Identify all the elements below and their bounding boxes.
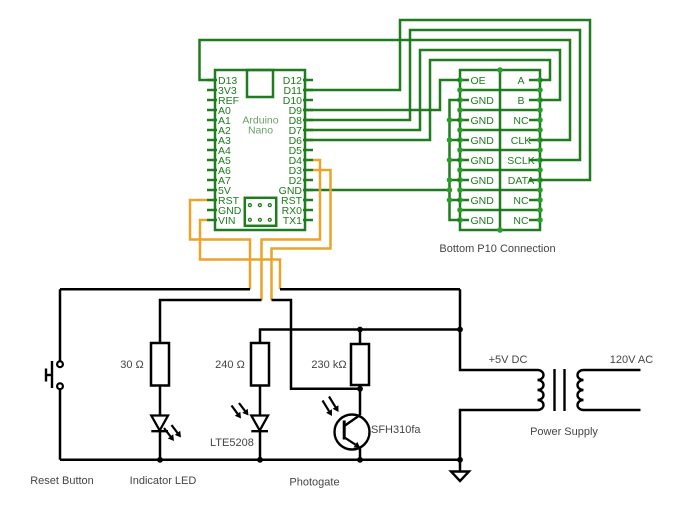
wire indicator drive (D4 net) (160, 300, 262, 343)
pin GND (P10 row 6 left) (460, 175, 494, 187)
pin A1 (Arduino left) (207, 115, 231, 127)
pin GND (P10 row 8 left) (460, 215, 494, 227)
svg-text:B: B (517, 95, 524, 107)
pin GND (P10 row 7 left) (460, 195, 494, 207)
label 30 ohm (120, 359, 144, 371)
junction Q1-rail (357, 457, 363, 463)
pin 5V (Arduino left) (207, 185, 231, 197)
wire top rail left (reset net) (60, 288, 250, 291)
pin TX1 (Arduino right) (283, 215, 313, 227)
svg-text:230 kΩ: 230 kΩ (311, 359, 346, 371)
label Bottom P10 Connection (439, 243, 555, 255)
pin D12 (Arduino right) (283, 75, 313, 87)
junction +5V/supply (457, 327, 463, 333)
junction LED1-rail (157, 457, 163, 463)
label SFH310fa (371, 424, 421, 436)
pin REF (Arduino left) (207, 95, 239, 107)
pin GND (P10 row 3 left) (460, 115, 494, 127)
wire LED2 to rail (259, 431, 262, 460)
connector J1 Bottom P10 (460, 70, 540, 230)
pin RX0 (Arduino right) (282, 205, 313, 217)
wire D13 to CLK (200, 40, 571, 140)
pin D4 (Arduino right) (289, 155, 313, 167)
pin D6 (Arduino right) (289, 135, 313, 147)
wire LED1 to rail (159, 431, 162, 460)
label Power Supply (530, 426, 598, 438)
wire 120V AC bottom lead (584, 409, 641, 412)
wire supply lower lead to ground (460, 410, 538, 460)
GND bus (P10 left side) (447, 100, 460, 220)
svg-text:Indicator LED: Indicator LED (130, 475, 197, 487)
label Indicator LED (130, 475, 197, 487)
wire bottom ground rail (60, 459, 460, 462)
transformer T1 secondary coil (578, 370, 584, 410)
pin RST (Arduino right) (281, 195, 313, 207)
svg-text:GND: GND (471, 195, 495, 207)
pin A7 (Arduino left) (207, 175, 231, 187)
pin GND (P10 row 5 left) (460, 155, 494, 167)
wire VIN to +5V rail (200, 220, 280, 289)
junction collector node (357, 386, 363, 392)
wire +5V distribution (260, 330, 460, 344)
pin GND (Arduino left) (207, 205, 242, 217)
svg-text:Bottom P10 Connection: Bottom P10 Connection (439, 243, 555, 255)
svg-text:CLK: CLK (511, 135, 531, 147)
svg-text:VIN: VIN (218, 215, 236, 227)
label Photogate (289, 477, 339, 489)
transformer T1 core (555, 369, 565, 411)
pin A0 (Arduino left) (207, 105, 231, 117)
pin NC (P10 row 3 right) (513, 115, 540, 127)
svg-text:Power Supply: Power Supply (530, 426, 598, 438)
op-amp U1 Arduino Nano body (215, 70, 305, 230)
svg-text:240 Ω: 240 Ω (215, 359, 245, 371)
svg-text:SCLK: SCLK (507, 155, 534, 167)
svg-text:GND: GND (471, 155, 495, 167)
wire button to bottom rail (59, 389, 62, 460)
junction dots on P10 edges (457, 67, 543, 233)
resistor R3 230 kohm (351, 344, 369, 385)
wire D8 to SCLK (305, 30, 580, 160)
pin D8 (Arduino right) (289, 115, 313, 127)
svg-text:DATA: DATA (508, 175, 534, 187)
svg-text:NC: NC (513, 215, 529, 227)
pin D2 (Arduino right) (289, 175, 313, 187)
pin OE (P10 row 1 left) (460, 75, 486, 87)
label 230 kohm (311, 359, 346, 371)
pin A6 (Arduino left) (207, 165, 231, 177)
transistor Q1 SFH310fa phototransistor (323, 389, 370, 460)
svg-text:LTE5208: LTE5208 (210, 437, 254, 449)
resistor R1 30 ohm (151, 343, 169, 386)
pin NC (P10 row 7 right) (513, 195, 540, 207)
wire D4 to indicator LED branch (262, 160, 321, 300)
svg-text:Nano: Nano (248, 125, 273, 137)
svg-text:Reset Button: Reset Button (30, 475, 94, 487)
svg-text:GND: GND (471, 95, 495, 107)
svg-text:TX1: TX1 (283, 215, 302, 227)
pin D13 (Arduino left) (207, 75, 237, 87)
svg-text:+5V DC: +5V DC (489, 354, 528, 366)
pin A4 (Arduino left) (207, 145, 231, 157)
pin GND (P10 row 4 left) (460, 135, 494, 147)
label LTE5208 (210, 437, 254, 449)
pin GND (Arduino right) (279, 185, 313, 197)
pin DATA (P10 row 6 right) (508, 175, 540, 187)
svg-text:NC: NC (513, 195, 529, 207)
pin SCLK (P10 row 5 right) (507, 155, 540, 167)
wire D7 to B (305, 50, 560, 130)
wire top rail right (+5V net) (280, 288, 460, 291)
wire D11 to DATA (305, 20, 590, 180)
ground symbol (451, 460, 469, 481)
wire photogate sense (D3 net) (272, 300, 361, 389)
wire Arduino GND to P10 GND bus (305, 189, 450, 192)
pin 3V3 (Arduino left) (207, 85, 237, 97)
svg-text:NC: NC (513, 115, 529, 127)
wire RST to reset button rail (190, 200, 250, 289)
pin D5 (Arduino right) (289, 145, 313, 157)
pin D10 (Arduino right) (283, 95, 313, 107)
pin VIN (Arduino left) (207, 215, 236, 227)
resistor R2 240 ohm (251, 343, 269, 386)
wire R2 to LED2 (259, 386, 262, 417)
svg-text:120V AC: 120V AC (610, 354, 653, 366)
svg-text:30 Ω: 30 Ω (120, 359, 144, 371)
pin A2 (Arduino left) (207, 125, 231, 137)
pin NC (P10 row 8 right) (513, 215, 540, 227)
svg-text:Photogate: Photogate (289, 477, 339, 489)
wire D3 to photogate sense (272, 170, 331, 300)
wire +5V supply drop (460, 289, 538, 370)
label Reset Button (30, 475, 94, 487)
wire left drop to reset button (59, 289, 62, 361)
switch SW1 reset button (46, 361, 63, 389)
label +5V DC (489, 354, 528, 366)
svg-text:SFH310fa: SFH310fa (371, 424, 421, 436)
pin D9 (Arduino right) (289, 105, 313, 117)
pin D7 (Arduino right) (289, 125, 313, 137)
junction LED2-rail (257, 457, 263, 463)
svg-text:A: A (517, 75, 524, 87)
pin A (P10 row 1 right) (517, 75, 540, 87)
wire D9 to OE (305, 80, 460, 110)
junction +5V/230k (357, 327, 363, 333)
label 240 ohm (215, 359, 245, 371)
svg-text:OE: OE (471, 75, 486, 87)
junction supply-rail (457, 457, 463, 463)
LED D2 LTE5208 (232, 403, 269, 431)
wire 120V AC top lead (584, 369, 641, 372)
pin D11 (Arduino right) (284, 85, 313, 97)
LED D1 indicator (151, 416, 181, 442)
wire D6 to A (305, 60, 550, 140)
pin A5 (Arduino left) (207, 155, 231, 167)
wire R3 to collector node (359, 385, 362, 389)
ICSP header (245, 198, 276, 226)
svg-text:GND: GND (471, 115, 495, 127)
label 120V AC (610, 354, 653, 366)
pin D3 (Arduino right) (289, 165, 313, 177)
wire R3 top (359, 330, 362, 345)
pin A3 (Arduino left) (207, 135, 231, 147)
pin B (P10 row 2 right) (517, 95, 540, 107)
transformer T1 primary coil (538, 370, 544, 410)
svg-text:GND: GND (471, 135, 495, 147)
pin CLK (P10 row 4 right) (511, 135, 540, 147)
USB connector notch (247, 70, 273, 97)
svg-text:GND: GND (471, 175, 495, 187)
wire R1 to LED1 (159, 386, 162, 417)
pin RST (Arduino left) (207, 195, 240, 207)
pin GND (P10 row 2 left) (460, 95, 494, 107)
svg-text:GND: GND (471, 215, 495, 227)
